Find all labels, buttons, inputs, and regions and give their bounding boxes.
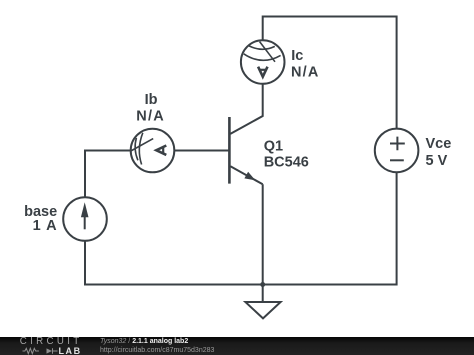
ammeter Ib: letter A rotated [156, 146, 166, 155]
svg-text:5 V: 5 V [426, 153, 448, 169]
svg-text:Ib: Ib [145, 92, 158, 108]
credit line [100, 338, 188, 345]
logo squiggle: resistor zigzag and diode [22, 347, 62, 355]
ammeter Ic: outer scale arc [244, 54, 281, 61]
url line [100, 347, 214, 354]
ground: triangle [245, 302, 280, 318]
wire emitter vertical [262, 184, 264, 284]
node: junction dot at emitter/ground/bottom rail [260, 282, 265, 287]
transistor Q1: emitter arrowhead [244, 172, 255, 181]
footer bar [0, 337, 474, 355]
ammeter Ib: needle [131, 139, 153, 151]
current source base: arrowhead [81, 202, 89, 217]
voltage source Vce: circle [375, 129, 419, 173]
svg-text:N/A: N/A [136, 108, 165, 124]
svg-text:Vce: Vce [426, 136, 452, 152]
svg-text:Q1: Q1 [264, 138, 283, 154]
wire top run: collector column to top rail to Vce top [263, 17, 397, 129]
ammeter Ic: needle [260, 42, 275, 62]
voltage source Vce: minus sign [390, 159, 404, 161]
logo LAB [59, 347, 82, 355]
ammeter Ib: circle [131, 129, 175, 173]
voltage source Vce: plus sign [390, 137, 405, 151]
ammeter Ic: inner scale arc [249, 46, 275, 49]
logo CIRCUIT [20, 337, 83, 347]
ammeter Ic: letter A rotated 180 [258, 67, 267, 77]
svg-text:N/A: N/A [291, 64, 320, 80]
svg-text:BC546: BC546 [264, 155, 309, 171]
wire base: left source up and across to ammeter Ib [85, 151, 131, 198]
current source base: arrow shaft [84, 208, 86, 229]
svg-text:1 A: 1 A [33, 218, 58, 234]
wire bottom run: source bottom, bottom rail to Vce bottom [85, 172, 397, 284]
transistor Q1 BC546: base bar [228, 117, 231, 184]
svg-text:Ic: Ic [291, 48, 303, 64]
ammeter Ib: outer scale arc [139, 133, 142, 165]
ammeter Ic: circle [241, 40, 285, 84]
ground: stub [262, 285, 264, 303]
wire collector: Ic meter bottom down and diagonal to Q1 base bar [230, 84, 262, 134]
current source base: circle [63, 197, 107, 241]
ammeter Ib: inner scale arc [135, 138, 138, 160]
wire base: ammeter Ib to Q1 [174, 150, 229, 152]
transistor Q1: emitter diagonal [230, 166, 262, 184]
